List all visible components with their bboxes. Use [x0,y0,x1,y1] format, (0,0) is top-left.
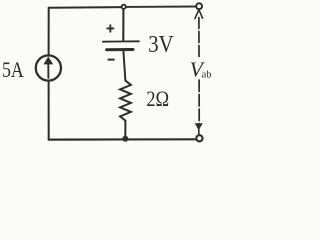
battery V1 positive long plate [103,40,139,42]
svg-text:2Ω: 2Ω [146,86,169,111]
Vab dashed line upper [198,18,200,60]
Vab arrow lower head [195,123,203,130]
battery V1 negative short plate [107,48,133,51]
wire bottom [49,138,197,141]
wire left vertical upper [48,8,50,55]
battery V1 bottom lead / wire to resistor [123,51,125,81]
node junction at resistor bottom (filled dot) [122,136,128,142]
Vab arrow upper head (chevron) [195,10,203,19]
battery minus sign [108,59,115,61]
svg-text:5A: 5A [2,57,24,82]
current source I1 circle [36,55,61,80]
label Vab [190,57,212,81]
resistor R1 zigzag [120,81,131,121]
battery V1 top lead [122,9,124,41]
current source I1 arrow shaft [47,64,49,78]
svg-text:ab: ab [202,70,212,81]
terminal a (open circle) [196,3,202,9]
wire left vertical lower [48,82,50,140]
node junction at battery top (open ring) [122,5,126,9]
svg-text:3V: 3V [148,32,174,58]
wire top-left segment [49,6,122,9]
Vab arrow lower stub [198,130,200,135]
Vab dashed line lower [198,80,200,124]
battery plus sign [107,25,115,33]
wire top-right segment [126,6,196,8]
resistor R1 bottom lead [124,121,126,139]
terminal b (open circle) [196,135,202,141]
current source I1 arrowhead [43,57,53,65]
